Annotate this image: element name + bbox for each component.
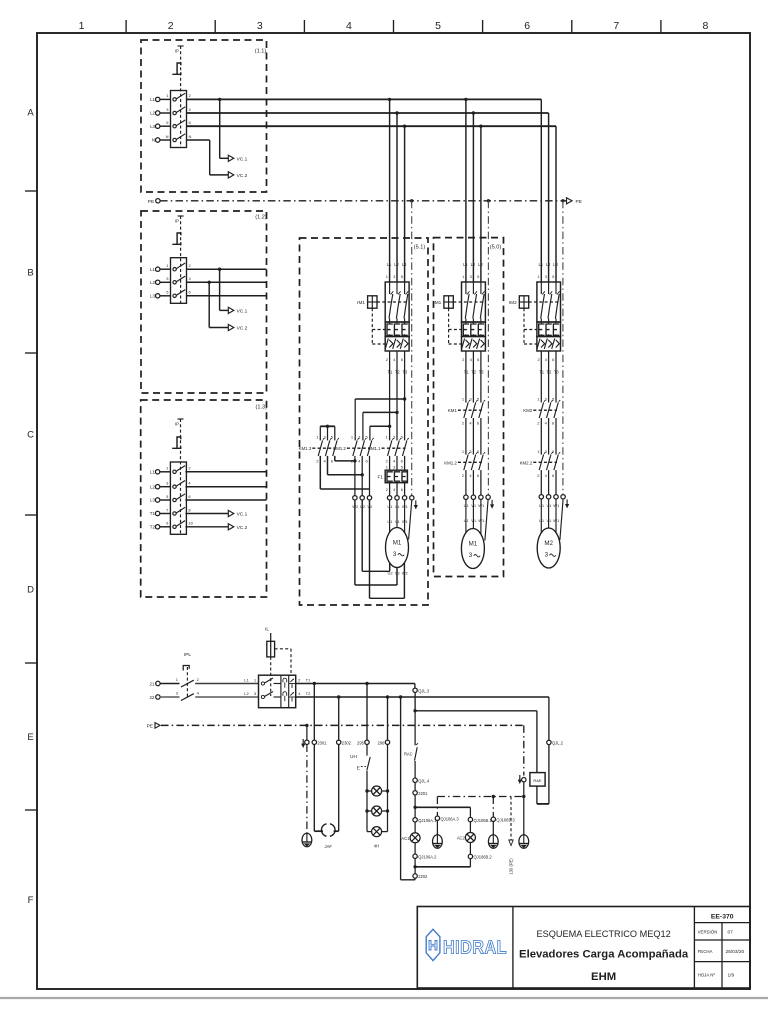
wire jumper T3 to KM1.2 pole1 bbox=[355, 397, 406, 440]
svg-text:L3: L3 bbox=[553, 262, 558, 267]
svg-text:T1: T1 bbox=[539, 369, 545, 374]
svg-text:QJ106B.3: QJ106B.3 bbox=[496, 817, 515, 822]
svg-text:FECHA: FECHA bbox=[698, 949, 713, 954]
wire 22 to IPL bbox=[160, 696, 179, 698]
svg-text:QJ106B.1: QJ106B.1 bbox=[474, 818, 493, 823]
wire motor M2 PE bbox=[560, 499, 563, 540]
svg-text:6: 6 bbox=[524, 20, 530, 32]
wires KM1.2 to terminals bbox=[466, 470, 481, 495]
svg-text:QJL.4: QJL.4 bbox=[418, 778, 430, 783]
svg-text:(1.3): (1.3) bbox=[256, 405, 268, 411]
breaker IM2 output pins T1 T2 T3 bbox=[537, 357, 559, 375]
contactor KM1.2 poles bbox=[462, 449, 485, 478]
svg-text:VC.1: VC.1 bbox=[237, 156, 248, 162]
wire PE drop to (5.0) bbox=[487, 199, 490, 495]
svg-text:07: 07 bbox=[728, 930, 734, 936]
svg-text:T2: T2 bbox=[150, 525, 156, 530]
isolator IP (1.3) thermal trip hook bbox=[172, 437, 181, 448]
svg-text:W1: W1 bbox=[402, 519, 409, 524]
svg-text:1: 1 bbox=[79, 20, 85, 32]
svg-text:T3: T3 bbox=[479, 369, 485, 374]
svg-text:HIDRAL: HIDRAL bbox=[443, 938, 507, 958]
zone box (5.1) bbox=[300, 238, 429, 605]
svg-text:IP: IP bbox=[175, 219, 179, 224]
svg-text:JAF: JAF bbox=[324, 844, 332, 849]
svg-text:IM1: IM1 bbox=[357, 300, 365, 305]
svg-text:(1.2): (1.2) bbox=[255, 215, 267, 221]
sheet row bbox=[698, 972, 735, 978]
svg-text:VERSIÓN: VERSIÓN bbox=[698, 930, 718, 935]
svg-text:(5.0): (5.0) bbox=[490, 245, 502, 251]
svg-text:L2: L2 bbox=[394, 262, 399, 267]
row ruler ticks and letters bbox=[25, 108, 37, 907]
wire tap L3 to column (5.1) bbox=[403, 125, 406, 283]
svg-text:U2: U2 bbox=[387, 570, 393, 575]
svg-text:C: C bbox=[27, 430, 34, 441]
isolator IP (1.3) body bbox=[166, 462, 193, 534]
fuse element IL bbox=[265, 627, 275, 657]
svg-text:L3: L3 bbox=[150, 294, 155, 299]
socket JAF bbox=[321, 824, 335, 849]
motor M2 bbox=[537, 528, 560, 568]
svg-text:N: N bbox=[152, 138, 155, 143]
svg-text:UH: UH bbox=[350, 754, 357, 760]
svg-text:U1: U1 bbox=[539, 518, 545, 523]
isolator IP (1.2) body bbox=[166, 258, 191, 304]
lamps 4H bbox=[365, 786, 389, 849]
contactor KM2.2 poles bbox=[537, 449, 560, 478]
terminal arrow VC.1 (1.3) bbox=[228, 510, 247, 517]
wires KM1.2 to winding terminals bbox=[355, 456, 370, 496]
wires KM1 to KM1.2 bbox=[466, 418, 481, 455]
breaker IM2 main contacts bbox=[537, 282, 561, 322]
svg-text:N: N bbox=[189, 134, 192, 139]
contactor KM1.1 mechanical link bbox=[368, 446, 406, 451]
terminal QJ106B.2 bbox=[468, 854, 492, 867]
svg-text:F: F bbox=[28, 895, 34, 906]
svg-text:D: D bbox=[27, 585, 34, 596]
svg-text:3: 3 bbox=[393, 551, 397, 558]
wires IM1 to KM1 bbox=[466, 351, 481, 403]
wires KM2.2 to terminals bbox=[541, 470, 556, 495]
svg-text:KM1: KM1 bbox=[448, 408, 458, 413]
svg-text:V2: V2 bbox=[395, 570, 401, 575]
breaker IM1 output pins T1 T2 T3 bbox=[386, 357, 408, 375]
svg-text:VC.2: VC.2 bbox=[237, 326, 248, 332]
svg-text:T3: T3 bbox=[554, 369, 560, 374]
breaker IM2 operator handle bbox=[509, 296, 561, 344]
terminal labels (5.0) bbox=[464, 503, 485, 523]
svg-text:296: 296 bbox=[378, 740, 386, 745]
svg-text:L2: L2 bbox=[150, 280, 155, 285]
wire lamp bus upper bbox=[413, 806, 470, 809]
svg-text:L2: L2 bbox=[244, 691, 249, 696]
scan artifact gray line bbox=[0, 997, 768, 999]
svg-text:T1: T1 bbox=[464, 369, 470, 374]
wire KM1.3 pole2 to KM1.2 pole2 bbox=[328, 456, 364, 477]
svg-text:IM1: IM1 bbox=[433, 300, 441, 305]
node PE source bbox=[148, 199, 160, 205]
svg-text:295: 295 bbox=[357, 740, 365, 745]
wire drop 2302 bbox=[337, 695, 340, 740]
isolator IP (1.3) dashed actuator line bbox=[175, 419, 184, 534]
contactor KM1.3 mechanical link bbox=[299, 446, 336, 451]
svg-text:QJ106A.1: QJ106A.1 bbox=[418, 818, 437, 823]
terminal arrow VC.2 (1.3) bbox=[228, 524, 247, 531]
wire tap L1 to column (5.0) bbox=[464, 98, 467, 282]
svg-text:U1: U1 bbox=[464, 518, 470, 523]
RCD main switch IL bbox=[259, 675, 296, 708]
svg-text:T1: T1 bbox=[388, 369, 394, 374]
svg-text:T2: T2 bbox=[306, 691, 311, 696]
terminal QJ106A.2 bbox=[413, 854, 437, 874]
svg-text:KM1.3: KM1.3 bbox=[299, 446, 312, 451]
svg-text:5: 5 bbox=[435, 20, 441, 32]
svg-text:W1: W1 bbox=[553, 503, 560, 508]
wire T2 to VC.2 (1.3) bbox=[185, 526, 228, 528]
svg-text:KM1.1: KM1.1 bbox=[368, 446, 381, 451]
svg-text:2201: 2201 bbox=[418, 791, 428, 796]
svg-text:VC.1: VC.1 bbox=[237, 309, 248, 315]
breaker IM1 thermal elements bbox=[385, 322, 409, 337]
svg-text:VC.2: VC.2 bbox=[237, 173, 248, 179]
wires lamp AC2 branch bbox=[469, 807, 471, 817]
svg-text:L1: L1 bbox=[150, 267, 155, 272]
wire PE descent right bbox=[518, 725, 526, 834]
svg-text:U1: U1 bbox=[387, 504, 393, 509]
wire drop 2301 bbox=[313, 682, 316, 740]
breaker IM2 magnetic elements bbox=[537, 337, 561, 352]
terminal 296 bbox=[378, 740, 390, 832]
svg-text:7: 7 bbox=[613, 20, 619, 32]
contactor KM1.3 poles bbox=[316, 435, 339, 464]
svg-text:T1: T1 bbox=[150, 511, 156, 516]
svg-text:M1: M1 bbox=[393, 540, 402, 547]
wire tap L2 to column (5.0) bbox=[472, 111, 475, 282]
svg-text:B: B bbox=[27, 268, 33, 279]
svg-text:V1: V1 bbox=[546, 518, 552, 523]
terminal strip (5.0) bbox=[464, 495, 491, 499]
svg-text:W1: W1 bbox=[553, 518, 560, 523]
terminal arrow VC.1 (1.1) bbox=[228, 155, 247, 162]
wire 130 PE stub bbox=[509, 797, 514, 875]
svg-text:25/03/20: 25/03/20 bbox=[726, 949, 745, 955]
svg-text:2202: 2202 bbox=[418, 874, 428, 879]
contactor KM1.1 poles bbox=[386, 435, 409, 464]
wire L2 bus bbox=[187, 113, 549, 282]
svg-text:E: E bbox=[27, 732, 33, 743]
IL output pins T1 T2 bbox=[298, 677, 311, 696]
svg-text:W1: W1 bbox=[478, 503, 485, 508]
isolator IP (1.1) dashed actuator line bbox=[175, 46, 184, 148]
isolator IP (1.2) input terminals bbox=[150, 267, 170, 299]
wire jumper T1 to KM1.2 pole3 bbox=[370, 425, 391, 441]
motor M1 bbox=[461, 529, 484, 569]
wire motor M1 PE bbox=[485, 499, 488, 540]
svg-text:T2: T2 bbox=[471, 369, 477, 374]
svg-text:2302: 2302 bbox=[342, 740, 352, 745]
svg-text:V1: V1 bbox=[471, 503, 477, 508]
wires terminals to motor M1 bbox=[390, 500, 405, 533]
terminal labels (5.1) bbox=[387, 504, 408, 524]
wire L1 bus bbox=[187, 99, 542, 282]
svg-text:V1: V1 bbox=[395, 504, 401, 509]
dashed test links IL bbox=[271, 649, 291, 696]
svg-text:M1: M1 bbox=[469, 541, 478, 548]
svg-text:T3: T3 bbox=[403, 369, 409, 374]
relay RAE bbox=[530, 773, 545, 787]
wire PE sub-rail bbox=[437, 795, 525, 798]
terminal arrow PE top right bbox=[567, 198, 582, 205]
wire drop QJ106B.3 bbox=[491, 795, 515, 835]
terminal 2202 bbox=[413, 874, 428, 880]
svg-text:U1: U1 bbox=[464, 503, 470, 508]
svg-text:VC.1: VC.1 bbox=[237, 512, 248, 518]
svg-text:KM1.2: KM1.2 bbox=[444, 460, 457, 465]
svg-text:L2: L2 bbox=[150, 111, 155, 116]
svg-text:1/9: 1/9 bbox=[728, 972, 735, 978]
wire N pole to VC.2 (1.1) bbox=[187, 140, 229, 175]
terminal QJL.4 bbox=[413, 778, 430, 791]
earth electrode right bbox=[519, 835, 529, 849]
isolator IP (1.2) thermal trip hook bbox=[172, 233, 181, 244]
svg-text:(5.1): (5.1) bbox=[414, 245, 426, 251]
wires IM2 to KM2 bbox=[541, 351, 556, 403]
terminal QJ106B.1 bbox=[468, 817, 492, 832]
svg-text:HOJA Nº: HOJA Nº bbox=[698, 972, 716, 977]
wire lamp bus lower bbox=[413, 865, 470, 868]
svg-text:PE: PE bbox=[148, 199, 154, 205]
svg-text:Elevadores Carga Acompañada: Elevadores Carga Acompañada bbox=[519, 949, 689, 961]
svg-text:U1: U1 bbox=[387, 519, 393, 524]
svg-text:QJ106B.2: QJ106B.2 bbox=[474, 855, 493, 860]
breaker IM1 thermal elements bbox=[462, 322, 486, 337]
svg-text:2: 2 bbox=[168, 20, 174, 32]
isolator IP (1.2) dashed actuator line bbox=[175, 216, 184, 303]
terminal strip M2 bbox=[539, 495, 565, 499]
svg-text:W1: W1 bbox=[478, 518, 485, 523]
svg-text:3: 3 bbox=[257, 20, 263, 32]
svg-text:QJL.2: QJL.2 bbox=[552, 741, 564, 746]
svg-text:3: 3 bbox=[545, 552, 549, 559]
contactor KM1.2 mechanical link bbox=[444, 460, 482, 465]
wire RAE to QJL.2 bbox=[537, 697, 549, 804]
svg-text:IP: IP bbox=[175, 422, 179, 427]
wires F1 to motor terminals bbox=[386, 483, 405, 496]
svg-text:KM1.2: KM1.2 bbox=[333, 446, 346, 451]
wire 2302 to JAF bbox=[334, 745, 339, 832]
svg-text:L1: L1 bbox=[387, 262, 392, 267]
wires KM2 to KM2.2 bbox=[541, 418, 556, 455]
wire tap to VC.2 (1.2) bbox=[208, 281, 229, 328]
ground connection left bbox=[301, 724, 309, 833]
terminal strip (5.1) bbox=[387, 496, 414, 500]
column ruler ticks and numbers bbox=[79, 20, 709, 33]
svg-text:22: 22 bbox=[150, 695, 155, 700]
wire tap to VC.1 (1.1) bbox=[218, 98, 228, 159]
wire KM1.3 pole1 to KM1.2 pole3 bbox=[320, 456, 369, 489]
breaker IM2 thermal elements bbox=[537, 322, 561, 337]
wire tap to VC.1 (1.2) bbox=[218, 268, 228, 311]
motor M1 winding return wires bbox=[355, 500, 405, 598]
wire 2301 to JAF bbox=[314, 745, 323, 832]
contactor KM1.2 poles bbox=[351, 435, 374, 464]
svg-text:AC1: AC1 bbox=[402, 836, 411, 841]
svg-text:10: 10 bbox=[188, 521, 193, 526]
svg-text:H: H bbox=[428, 938, 438, 953]
contactor KM1.2 mechanical link bbox=[333, 446, 370, 451]
svg-text:N: N bbox=[166, 134, 169, 139]
svg-text:V1: V1 bbox=[471, 518, 477, 523]
svg-text:130 (PE): 130 (PE) bbox=[509, 858, 514, 875]
svg-text:PE: PE bbox=[147, 724, 153, 730]
svg-text:L2: L2 bbox=[471, 262, 476, 267]
svg-text:IL: IL bbox=[265, 627, 269, 633]
terminal labels M2 bbox=[539, 503, 560, 523]
svg-text:QJL.3: QJL.3 bbox=[418, 689, 430, 694]
svg-text:21: 21 bbox=[150, 682, 155, 687]
contactor KM1 mechanical link bbox=[448, 408, 482, 413]
wire PE bottom rail bbox=[147, 723, 524, 730]
wire drop QJ106A.3 bbox=[435, 797, 459, 835]
doc number EE-370 bbox=[711, 914, 734, 921]
svg-text:A: A bbox=[27, 108, 34, 119]
terminal 295 bbox=[357, 740, 369, 745]
svg-text:L1: L1 bbox=[150, 470, 155, 475]
terminal QJL.2 bbox=[547, 740, 564, 745]
svg-text:KM2: KM2 bbox=[523, 408, 533, 413]
svg-text:L1: L1 bbox=[463, 262, 468, 267]
svg-text:L2: L2 bbox=[546, 262, 551, 267]
svg-text:W1: W1 bbox=[402, 504, 409, 509]
svg-text:QJ106A.2: QJ106A.2 bbox=[418, 854, 437, 859]
wires L1-L3 outputs (1.3) bbox=[185, 472, 266, 500]
terminal arrow VC.2 (1.2) bbox=[228, 324, 247, 331]
svg-text:EHM: EHM bbox=[591, 971, 616, 983]
PE arrow at M2 terminals bbox=[565, 499, 569, 508]
svg-text:L2: L2 bbox=[150, 484, 155, 489]
isolator IP (1.1) body bbox=[166, 91, 192, 148]
earth electrode B3 bbox=[488, 835, 498, 849]
terminal 2201 bbox=[413, 791, 428, 818]
terminal arrow VC.1 (1.2) bbox=[228, 307, 247, 314]
contact RAC bbox=[404, 711, 418, 778]
wire to relay RAE bbox=[536, 711, 538, 773]
wire PE drop to (5.1) bbox=[410, 199, 413, 495]
wire T2 feeder bbox=[296, 696, 549, 698]
wire IPL to IL L2 bbox=[195, 691, 258, 697]
switch UH bbox=[350, 745, 370, 832]
wire drop 296 bbox=[386, 695, 389, 740]
wire 21 to IPL bbox=[160, 683, 179, 685]
wires L1-L3 outputs (1.2) bbox=[187, 269, 267, 296]
svg-text:L1: L1 bbox=[150, 97, 155, 102]
wire branch to RAE loop bbox=[413, 709, 537, 712]
wire T1 feeder bbox=[296, 684, 415, 689]
contactor KM1 poles bbox=[462, 397, 485, 426]
switch IPL bbox=[176, 652, 200, 701]
contactor KM2 mechanical link bbox=[523, 408, 557, 413]
svg-text:IPL: IPL bbox=[184, 652, 192, 658]
terminal arrow VC.2 (1.1) bbox=[228, 172, 247, 179]
svg-text:E: E bbox=[357, 765, 360, 771]
svg-text:T2: T2 bbox=[547, 369, 553, 374]
wire KM1.3 pole3 to KM1.2 pole1 bbox=[335, 456, 357, 463]
wire return drop to chain bottom bbox=[399, 695, 415, 880]
breaker IM1 main contacts bbox=[385, 282, 409, 322]
svg-text:EE-370: EE-370 bbox=[711, 914, 734, 921]
wire motor M1 PE bbox=[409, 500, 412, 540]
terminal QJ106A.1 bbox=[413, 818, 437, 833]
isolator IP (1.3) input terminals bbox=[150, 470, 171, 530]
breaker IM1 main contacts bbox=[462, 282, 486, 322]
breaker IM1 magnetic elements bbox=[462, 337, 486, 352]
wires terminals to motor M1 bbox=[466, 499, 481, 533]
earth electrode left bbox=[302, 833, 312, 847]
earth electrode A3 bbox=[433, 835, 443, 849]
terminal 2302 bbox=[337, 740, 352, 745]
svg-text:V1: V1 bbox=[395, 519, 401, 524]
svg-text:L1: L1 bbox=[539, 262, 544, 267]
breaker IM1 output pins T1 T2 T3 bbox=[462, 357, 484, 375]
svg-text:4H: 4H bbox=[374, 844, 379, 849]
lamp AC2 bbox=[457, 833, 476, 855]
svg-text:VC.2: VC.2 bbox=[237, 525, 248, 531]
wires terminals to motor M2 bbox=[541, 499, 556, 533]
svg-text:RAC: RAC bbox=[404, 752, 413, 757]
version row bbox=[698, 930, 734, 936]
wire IPL to IL L1 bbox=[195, 677, 258, 683]
svg-text:L1: L1 bbox=[244, 677, 249, 682]
motor M1 bbox=[386, 528, 409, 568]
svg-text:T1: T1 bbox=[306, 677, 311, 682]
wire tap L3 to column (5.0) bbox=[479, 125, 482, 283]
wire phase drops into M2 bbox=[537, 262, 558, 279]
breaker IM1 magnetic elements bbox=[385, 337, 409, 352]
breaker IM1 operator handle bbox=[433, 296, 485, 344]
PE arrow at (5.0) terminals bbox=[490, 500, 494, 509]
zone box (5.0) bbox=[434, 238, 504, 577]
breaker IM1 operator handle bbox=[357, 296, 409, 344]
wire tap L1 to column (5.1) bbox=[388, 98, 391, 282]
svg-text:4: 4 bbox=[346, 20, 352, 32]
svg-text:PE: PE bbox=[576, 199, 582, 205]
terminal 2301 bbox=[312, 740, 327, 745]
overload relay F1 bbox=[378, 470, 408, 483]
PE arrow at (5.1) terminals bbox=[414, 500, 418, 509]
zone box (1.2) bbox=[141, 211, 267, 393]
svg-text:M2: M2 bbox=[544, 540, 553, 547]
svg-text:U1: U1 bbox=[539, 503, 545, 508]
svg-text:IM2: IM2 bbox=[509, 300, 517, 305]
svg-text:L3: L3 bbox=[478, 262, 483, 267]
wire phase drops into (5.0) bbox=[462, 262, 483, 279]
svg-text:2301: 2301 bbox=[317, 740, 327, 745]
contactor KM2 poles bbox=[537, 397, 560, 426]
terminal QJL.3 bbox=[413, 688, 430, 711]
svg-text:L3: L3 bbox=[150, 124, 155, 129]
terminal strip W2 U2 V2 bbox=[352, 496, 373, 509]
motor M1 bottom terminal labels U2 V2 W2 bbox=[387, 570, 408, 575]
node 22 input terminal bbox=[150, 695, 161, 700]
svg-text:L3: L3 bbox=[402, 262, 407, 267]
svg-text:(1.1): (1.1) bbox=[255, 49, 267, 55]
svg-text:W2: W2 bbox=[402, 570, 409, 575]
zone box (1.3) bbox=[141, 400, 267, 597]
node 21 input terminal bbox=[150, 681, 161, 686]
svg-text:AC2: AC2 bbox=[457, 836, 466, 841]
svg-text:3: 3 bbox=[469, 552, 473, 559]
